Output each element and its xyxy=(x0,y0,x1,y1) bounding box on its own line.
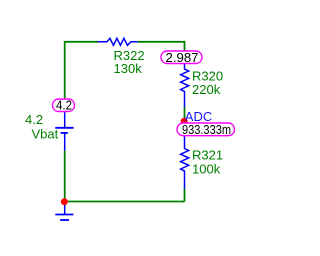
svg-text:933.333m: 933.333m xyxy=(182,123,231,137)
svg-text:4.2: 4.2 xyxy=(56,99,72,113)
svg-text:ADC: ADC xyxy=(185,109,212,124)
svg-text:Vbat: Vbat xyxy=(32,127,59,142)
svg-text:130k: 130k xyxy=(114,61,143,76)
svg-text:220k: 220k xyxy=(192,82,221,97)
svg-text:R321: R321 xyxy=(192,148,223,163)
svg-text:2.987: 2.987 xyxy=(166,51,199,65)
svg-text:100k: 100k xyxy=(192,161,221,176)
svg-text:4.2: 4.2 xyxy=(25,112,43,127)
